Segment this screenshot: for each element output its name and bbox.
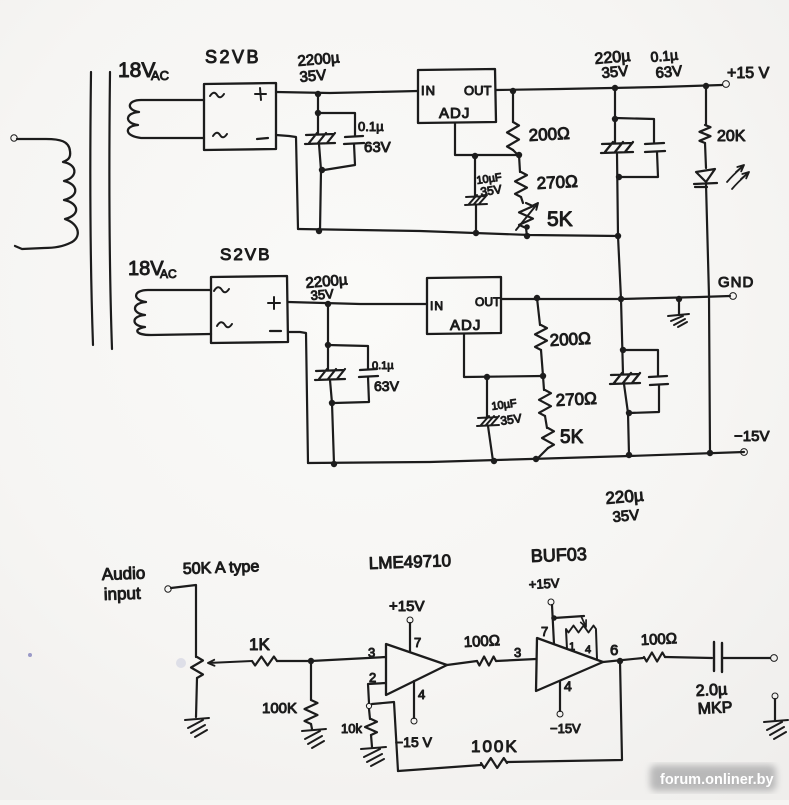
trimpot VR3 arrow bbox=[581, 616, 586, 627]
potentiometer VR2 wiper arrow bbox=[208, 660, 252, 666]
watermark forum.onliner.by bbox=[650, 765, 776, 791]
wire C1 top bbox=[317, 94, 319, 134]
svg-text:220µ: 220µ bbox=[605, 486, 645, 508]
potentiometer VR2 50K bbox=[191, 657, 203, 678]
terminal U4 -15V bbox=[557, 711, 563, 717]
wire R11 to C11 bbox=[665, 657, 712, 658]
capacitor C6 2200u plates bbox=[315, 369, 345, 380]
terminal output bbox=[771, 655, 778, 662]
resistor R8 100K bbox=[305, 700, 318, 724]
wire R10 to U4 bbox=[496, 659, 536, 661]
node U1 OUT / R1 bbox=[510, 88, 516, 94]
bridge BR2 pin ~ top bbox=[214, 287, 229, 292]
node U2 OUT / R4 bbox=[534, 295, 540, 301]
svg-text:4: 4 bbox=[585, 644, 591, 656]
svg-text:IN: IN bbox=[430, 299, 444, 313]
terminal +15V bbox=[723, 81, 730, 88]
capacitor C2 0.1u plates bbox=[344, 136, 364, 144]
wire C1 bottom bbox=[319, 144, 321, 231]
svg-text:50K A type: 50K A type bbox=[183, 558, 260, 578]
transformer T1 primary terminal bbox=[11, 135, 17, 141]
node C8 top bbox=[484, 374, 490, 380]
capacitor C8 10uF plates bbox=[477, 416, 499, 426]
terminal U4 +15V bbox=[548, 599, 554, 605]
node trim tap bbox=[551, 615, 557, 621]
svg-text:+15 V: +15 V bbox=[727, 65, 770, 82]
wire C9 bottom bbox=[624, 384, 629, 455]
node C9/C10 lower bbox=[626, 410, 632, 416]
svg-text:35V: 35V bbox=[612, 507, 640, 526]
ink smudge blue dot bbox=[28, 653, 32, 657]
ground symbol G1 bbox=[668, 314, 689, 327]
wire R1 top bbox=[512, 91, 514, 122]
wire C8 bottom bbox=[488, 426, 493, 461]
wire U4 out bbox=[603, 658, 643, 662]
svg-text:270Ω: 270Ω bbox=[555, 389, 597, 410]
wire C9 vert bbox=[621, 299, 623, 374]
svg-text:3: 3 bbox=[368, 645, 375, 660]
ground symbol G3 (R8) bbox=[302, 729, 326, 748]
node C4 top bbox=[612, 85, 618, 91]
svg-text:35V: 35V bbox=[499, 411, 522, 428]
wire 270-2 top bbox=[543, 376, 544, 390]
node U4 out bbox=[617, 658, 623, 664]
capacitor C11 2.0u MKP plates bbox=[714, 642, 722, 672]
node C4/C5 upper bbox=[612, 116, 618, 122]
node C6 rail bbox=[331, 461, 337, 467]
resistor R7 1K bbox=[252, 657, 277, 666]
node C2 top bbox=[315, 110, 321, 116]
wire R6 bottom bbox=[537, 448, 548, 459]
node C9 top bbox=[620, 347, 626, 353]
svg-text:−15V: −15V bbox=[550, 721, 581, 736]
svg-text:MKP: MKP bbox=[697, 699, 733, 718]
capacitor C4 220u plates bbox=[601, 142, 633, 153]
wire C10 loop bbox=[623, 350, 659, 413]
wire U1 ADJ bbox=[455, 123, 519, 155]
svg-text:input: input bbox=[103, 584, 141, 604]
svg-text:35V: 35V bbox=[299, 67, 327, 86]
svg-text:5K: 5K bbox=[547, 208, 573, 231]
svg-text:18V: 18V bbox=[128, 258, 164, 280]
wire C4 top bbox=[614, 88, 616, 143]
svg-text:forum.onliner.by: forum.onliner.by bbox=[660, 772, 774, 788]
resistor R10 100ohm bbox=[477, 657, 496, 666]
capacitor C7 0.1u plates bbox=[359, 369, 378, 377]
resistor R11 100ohm bbox=[644, 653, 665, 662]
node C1/C2 bottom bbox=[319, 167, 325, 173]
svg-text:6: 6 bbox=[610, 642, 618, 659]
wire R5-R6 bbox=[545, 416, 547, 428]
resistor R3 20K bbox=[700, 125, 711, 143]
node C4/C5 lower bbox=[616, 174, 622, 180]
wire C11 to output bbox=[722, 657, 770, 659]
svg-text:200Ω: 200Ω bbox=[528, 124, 570, 145]
wire BR2+ to U2 IN bbox=[288, 302, 427, 304]
wire R7 to node bbox=[277, 660, 311, 662]
wire C8 top bbox=[486, 377, 488, 417]
wire U3 pin4 bbox=[413, 681, 415, 718]
op-amp U3 triangle bbox=[386, 644, 447, 695]
svg-text:200Ω: 200Ω bbox=[549, 329, 591, 350]
node C6/C7 lower bbox=[329, 400, 335, 406]
bridge BR2 pin − bbox=[270, 330, 281, 332]
terminal output ground bbox=[772, 693, 778, 699]
wire BR1+ to U1 IN bbox=[276, 91, 418, 93]
wire R8 top bbox=[310, 661, 312, 700]
ground symbol G4 (R9) bbox=[361, 747, 386, 766]
trimpot VR1 5K bbox=[519, 203, 533, 228]
svg-text:1K: 1K bbox=[249, 635, 270, 654]
bridge BR1 pin − bbox=[257, 138, 268, 139]
terminal audio input bbox=[165, 586, 171, 592]
capacitor C3 10uF plates bbox=[465, 195, 487, 205]
svg-text:1: 1 bbox=[569, 641, 575, 653]
wire supply1 bottom rail bbox=[298, 229, 619, 236]
wire R2-VR1 bbox=[521, 197, 523, 203]
svg-text:AC: AC bbox=[160, 267, 177, 281]
LED D1 arrows bbox=[727, 168, 741, 182]
svg-text:4: 4 bbox=[418, 687, 425, 702]
wire BR1- down bbox=[276, 135, 298, 229]
wire VR3 legs bbox=[566, 630, 597, 659]
wire gnd stub bbox=[678, 299, 680, 315]
resistor R9 10K bbox=[365, 719, 377, 735]
svg-text:35V: 35V bbox=[601, 63, 629, 82]
svg-text:+15V: +15V bbox=[389, 598, 424, 615]
wire R4 to node bbox=[541, 350, 543, 376]
node BR1+ / C1 bbox=[315, 91, 321, 97]
wire GND rail bbox=[501, 296, 730, 299]
svg-text:+15V: +15V bbox=[528, 575, 560, 592]
wire VR1 bottom bbox=[526, 228, 527, 236]
svg-text:20K: 20K bbox=[717, 128, 746, 145]
wire C2 loop bbox=[318, 113, 355, 170]
svg-text:100Ω: 100Ω bbox=[463, 632, 500, 651]
node ADJ2 bbox=[540, 373, 546, 379]
wire R8 bottom bbox=[311, 724, 312, 729]
svg-text:S2VB: S2VB bbox=[220, 245, 271, 264]
svg-text:63V: 63V bbox=[364, 139, 391, 156]
bridge BR2 pin + bbox=[268, 297, 280, 309]
node ADJ1 bbox=[516, 152, 522, 158]
node rail1-gnd bbox=[615, 233, 621, 239]
wire R9 top bbox=[369, 709, 370, 719]
node C8 rail bbox=[491, 458, 497, 464]
wire feedback right bbox=[507, 661, 622, 762]
node C6/C7 upper bbox=[325, 342, 331, 348]
svg-text:0.1µ: 0.1µ bbox=[358, 119, 384, 134]
svg-text:18V: 18V bbox=[118, 59, 155, 82]
node C9 rail bbox=[626, 452, 632, 458]
capacitor C9 220u plates bbox=[610, 373, 640, 384]
node VR1 bottom bbox=[524, 224, 530, 230]
transformer T1 core bbox=[90, 72, 93, 345]
svg-text:S2VB: S2VB bbox=[205, 47, 261, 67]
wire C6 top bbox=[327, 304, 329, 370]
wire feedback bottom bbox=[398, 765, 481, 771]
node R6 rail bbox=[533, 456, 539, 462]
svg-text:ADJ: ADJ bbox=[450, 317, 481, 334]
capacitor C10 0.1u plates bbox=[649, 376, 668, 385]
svg-text:5K: 5K bbox=[560, 427, 584, 448]
node VR1 rail bbox=[524, 233, 530, 239]
node C3 rail bbox=[473, 230, 479, 236]
svg-text:4: 4 bbox=[564, 678, 572, 694]
wire U3 out to R10 bbox=[447, 661, 477, 665]
wire D1 to -15 rail bbox=[706, 184, 710, 453]
wire C4 bottom bbox=[617, 154, 618, 236]
node R7/R8 bbox=[308, 658, 314, 664]
node BR2+ / C6 bbox=[325, 301, 331, 307]
terminal U3 +15V bbox=[407, 617, 413, 623]
resistor R6 5K bbox=[542, 428, 554, 448]
wire feedback left bbox=[372, 702, 398, 771]
svg-text:OUT: OUT bbox=[475, 295, 501, 309]
wire R1 to node bbox=[513, 150, 518, 155]
ground symbol G5 (output) bbox=[764, 720, 788, 739]
node C3 top bbox=[472, 153, 478, 159]
wire R9 bottom bbox=[371, 735, 372, 747]
trimpot VR1 arrow bbox=[516, 203, 538, 230]
regulator U1 box bbox=[418, 69, 496, 123]
svg-text:63V: 63V bbox=[655, 63, 683, 82]
svg-text:BUF03: BUF03 bbox=[530, 544, 587, 566]
bridge BR2 pin ~ bottom bbox=[217, 322, 232, 327]
svg-text:3: 3 bbox=[514, 645, 521, 660]
resistor R12 100K feedback bbox=[481, 758, 507, 768]
resistor R5 270ohm bbox=[539, 390, 551, 416]
wire 270-1 top bbox=[519, 155, 520, 172]
svg-text:35V: 35V bbox=[479, 182, 502, 199]
node U3 pin2 bbox=[366, 703, 371, 708]
LED D1 bbox=[694, 169, 717, 187]
trimpot VR3 zigzag bbox=[566, 626, 596, 633]
wire BR2- down bbox=[288, 332, 308, 463]
svg-text:GND: GND bbox=[718, 274, 754, 291]
svg-text:−15V: −15V bbox=[734, 428, 769, 445]
wire trim wiper bbox=[554, 616, 584, 618]
wire R4 top bbox=[537, 298, 540, 325]
wire R3-D1 bbox=[705, 143, 706, 168]
node gnd-sym bbox=[676, 296, 682, 302]
svg-text:7: 7 bbox=[414, 635, 421, 650]
wire VR2 bottom bbox=[196, 678, 197, 717]
bridge BR1 pin ~ top bbox=[210, 93, 224, 98]
wire gnd drop bbox=[618, 236, 621, 299]
terminal U3 -15V bbox=[411, 718, 417, 724]
wire U4 pin7 bbox=[552, 605, 554, 644]
regulator U2 box bbox=[427, 277, 501, 334]
node gnd-c4 bbox=[618, 296, 624, 302]
node C1 rail bbox=[316, 228, 322, 234]
transformer T1 secondary winding S2 bbox=[135, 290, 212, 335]
op-amp U4 triangle bbox=[536, 638, 603, 691]
wire U3 pin7 bbox=[409, 623, 411, 652]
svg-text:ADJ: ADJ bbox=[439, 105, 470, 122]
wire supply2 bottom rail bbox=[308, 452, 744, 463]
transformer T1 secondary winding S1 bbox=[128, 100, 204, 138]
svg-text:2.0µ: 2.0µ bbox=[695, 681, 727, 700]
resistor R1 200ohm bbox=[507, 122, 519, 150]
svg-text:10k: 10k bbox=[341, 721, 362, 736]
bridge BR1 pin + bbox=[255, 88, 266, 100]
wire U4 pin4 bbox=[559, 681, 561, 711]
resistor R4 200ohm bbox=[535, 325, 547, 350]
svg-text:IN: IN bbox=[421, 83, 436, 98]
svg-text:35V: 35V bbox=[310, 286, 335, 303]
svg-text:−15 V: −15 V bbox=[395, 734, 433, 750]
wire U1 OUT rail to +15V bbox=[496, 85, 722, 90]
svg-text:Audio: Audio bbox=[101, 563, 145, 584]
node rail2 LED bbox=[707, 450, 713, 456]
resistor R2 270ohm bbox=[515, 172, 527, 197]
node R3 top bbox=[703, 83, 709, 89]
svg-text:AC: AC bbox=[151, 68, 169, 83]
wire C3 bottom bbox=[475, 205, 477, 233]
svg-text:63V: 63V bbox=[374, 378, 400, 394]
svg-text:7: 7 bbox=[541, 624, 548, 639]
wire output gnd stub bbox=[774, 699, 776, 720]
svg-text:100Ω: 100Ω bbox=[640, 630, 677, 649]
svg-text:0.1µ: 0.1µ bbox=[650, 47, 679, 65]
transformer T1 primary winding bbox=[15, 139, 78, 249]
wire node to U3 pin3 bbox=[311, 657, 386, 661]
wire C7 loop bbox=[328, 345, 369, 403]
wire C5 loop bbox=[615, 118, 658, 177]
capacitor C1 2200u plates bbox=[305, 133, 335, 144]
svg-text:LME49710: LME49710 bbox=[368, 551, 451, 573]
svg-text:100K: 100K bbox=[471, 737, 519, 756]
svg-text:0.1µ: 0.1µ bbox=[372, 360, 394, 372]
bridge BR1 pin ~ bottom bbox=[213, 133, 227, 138]
ground symbol G2 (pot) bbox=[185, 718, 209, 737]
wire U2 ADJ bbox=[464, 334, 543, 377]
svg-text:270Ω: 270Ω bbox=[536, 172, 578, 193]
bridge rectifier BR1 S2VB box bbox=[204, 83, 276, 150]
terminal -15V bbox=[741, 449, 748, 456]
capacitor C5 0.1u plates bbox=[645, 143, 665, 152]
wire C3 top bbox=[474, 156, 476, 196]
wire input to pot bbox=[171, 585, 196, 657]
svg-text:OUT: OUT bbox=[464, 83, 492, 98]
wire R3 top bbox=[705, 86, 707, 125]
wire U3 pin2 bbox=[368, 683, 386, 703]
svg-text:100K: 100K bbox=[262, 700, 297, 717]
wire C6 bottom bbox=[330, 380, 334, 464]
terminal GND bbox=[730, 293, 737, 300]
bridge rectifier BR2 S2VB box bbox=[211, 276, 288, 343]
